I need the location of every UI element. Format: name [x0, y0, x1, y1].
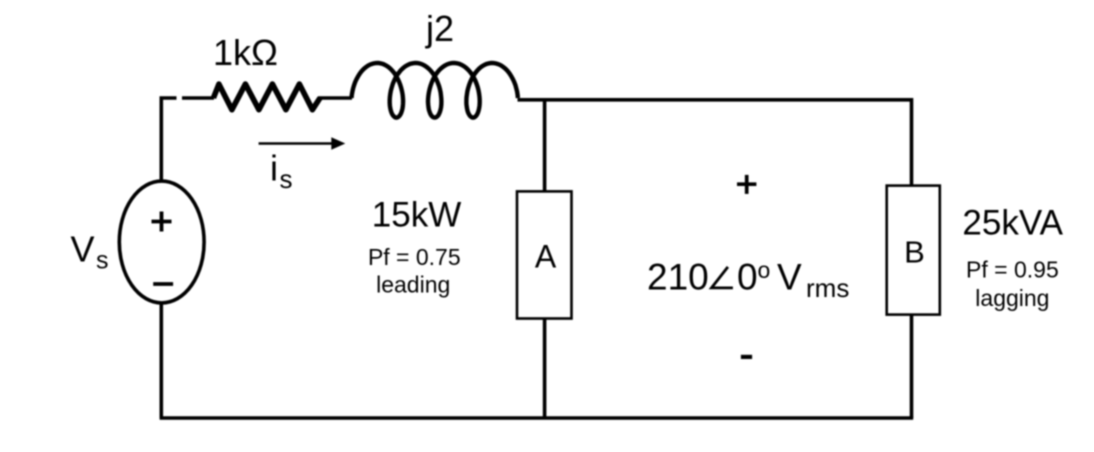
svg-text:i: i	[270, 147, 278, 188]
svg-text:Pf = 0.95: Pf = 0.95	[966, 257, 1059, 283]
label is	[270, 147, 293, 194]
wire source to bottom-left corner	[160, 303, 164, 418]
wire inductor to top-right corner and down	[518, 100, 912, 186]
load A box	[517, 191, 572, 318]
load B box	[887, 186, 940, 315]
svg-text:15kW: 15kW	[372, 196, 461, 235]
resistor R1 1kOhm zigzag	[213, 84, 320, 110]
minus sign annotation	[741, 355, 752, 359]
current arrow is	[259, 137, 346, 149]
wire resistor to inductor	[318, 96, 352, 100]
wire junction down to load A	[543, 100, 547, 192]
svg-text:rms: rms	[806, 273, 849, 303]
label Vs	[71, 229, 109, 275]
svg-text:lagging: lagging	[975, 285, 1049, 311]
wire segment after gap to resistor	[182, 96, 214, 100]
svg-text:B: B	[904, 235, 925, 270]
bottom wire	[160, 416, 914, 420]
svg-text:1kΩ: 1kΩ	[213, 32, 278, 73]
svg-text:25kVA: 25kVA	[962, 204, 1063, 243]
svg-text:0: 0	[737, 256, 758, 297]
wire load A to bottom	[543, 319, 547, 419]
plus sign inside source	[152, 212, 172, 232]
svg-text:leading: leading	[376, 271, 450, 297]
svg-text:o: o	[758, 257, 771, 283]
minus sign inside source	[153, 282, 173, 286]
svg-text:j2: j2	[425, 8, 454, 49]
voltage source Vs ellipse	[119, 181, 204, 303]
svg-text:s: s	[280, 164, 293, 194]
svg-text:A: A	[535, 239, 557, 275]
inductor L1 j2	[352, 63, 518, 118]
wire right vertical below load B	[910, 315, 914, 418]
svg-text:210: 210	[647, 256, 709, 297]
svg-text:V: V	[71, 229, 95, 270]
svg-text:V: V	[777, 256, 802, 297]
svg-text:Pf = 0.75: Pf = 0.75	[368, 244, 461, 270]
label 210 angle 0 Vrms	[647, 256, 849, 303]
plus sign annotation	[737, 175, 756, 194]
wire top-left corner and segment to resistor	[161, 98, 176, 182]
svg-text:s: s	[96, 247, 109, 275]
